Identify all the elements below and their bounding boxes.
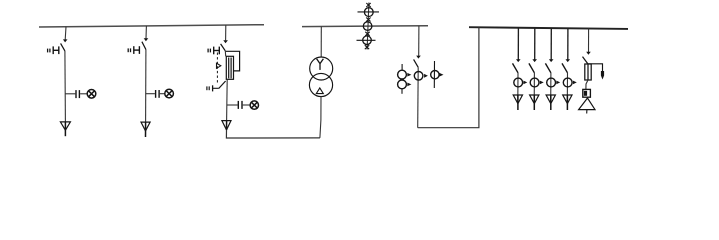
feeder 2 CT arrow	[540, 81, 544, 85]
transformer primary wire	[320, 27, 322, 58]
transformer secondary wire	[320, 97, 321, 138]
bay 3 outgoing cable arrow	[222, 121, 231, 130]
feeder 1 wire	[517, 73, 519, 104]
transformer T1 secondary winding	[309, 73, 332, 96]
CT C right circle	[431, 71, 439, 79]
bay 3 earthing switch blade	[219, 81, 226, 89]
CT C through wire	[433, 61, 435, 88]
fuse striker pin	[601, 71, 604, 80]
feeder 4 wire	[566, 73, 568, 104]
bay 2 feeder wire	[145, 50, 147, 123]
VT bay switch blade	[583, 57, 588, 64]
CT D bottom stub	[401, 89, 403, 94]
bay 1 feeder wire	[64, 51, 67, 122]
bay 2 capacitor divider bars	[156, 90, 160, 98]
feeder 4 outgoing cable arrow	[563, 95, 572, 110]
VT bay plug-in contact arrow	[586, 52, 591, 55]
bay 3 wire blade to fuse	[224, 51, 226, 57]
VT stack upper transformer circle	[364, 8, 373, 17]
metering bay main wire	[417, 67, 420, 127]
bay 1 operator bars	[48, 49, 50, 53]
bay 2 operator H glyph	[134, 46, 140, 54]
feeder 2 wire	[533, 73, 535, 104]
CT D lower-left circle	[398, 80, 407, 89]
VT bay drop wire from busbar 3	[588, 29, 590, 53]
CT A arrow	[407, 73, 411, 77]
feeder 3 drop wire from busbar 3	[550, 28, 552, 60]
feeder 1 plug-in contact arrow	[516, 59, 521, 62]
busbar 3	[469, 27, 628, 29]
bay 3 operator bars	[208, 49, 210, 53]
feeder 3 plug-in contact arrow	[549, 59, 554, 62]
VT bay wire below fuse	[586, 80, 588, 89]
bay 2 plug-in contact arrow	[144, 38, 149, 41]
transformer T1 primary winding	[310, 57, 333, 80]
bay 1 plug-in contact arrow	[63, 39, 68, 42]
CT A upper-left circle	[398, 70, 407, 79]
metering bay drop wire from busbar 2	[418, 26, 420, 56]
bay 2 drop wire from busbar 1	[145, 26, 147, 39]
bay 1 indicator lead wire	[80, 93, 87, 95]
feeder 2 switch blade	[529, 63, 535, 72]
fuse striker branch wire	[588, 64, 603, 71]
arrester earth triangle	[579, 98, 595, 110]
bay 3 indicator lamp	[250, 101, 258, 109]
bay 3 earthing switch operator bars	[207, 86, 209, 90]
bay 2 switch blade	[142, 42, 146, 50]
feeder 4 drop wire from busbar 3	[567, 28, 569, 59]
bay 2 operator bars	[128, 48, 130, 52]
bay 1 indicator lamp	[87, 90, 96, 99]
feeder 3 wire	[550, 73, 552, 104]
transformer Y label	[317, 59, 324, 70]
feeder 1 switch blade	[513, 63, 519, 72]
VT stack bottom cross	[365, 45, 369, 49]
main CT arrow	[424, 74, 428, 78]
bay 3 plug-in contact arrow	[223, 40, 228, 43]
feeder 1 current transformer	[514, 78, 523, 87]
feeder 2 current transformer	[530, 78, 539, 87]
cable run bay 3 to transformer	[226, 130, 320, 138]
tie cable run to busbar 3	[418, 27, 479, 127]
bay 1 drop wire from busbar 1	[64, 27, 67, 40]
bay 3 drop wire from busbar 1	[225, 25, 227, 40]
VT stack lower tap bar	[357, 39, 376, 41]
bay 3 feeder wire below fuse	[226, 79, 229, 120]
VT stack cross between middle and lower circles	[365, 32, 369, 36]
feeder 3 CT arrow	[556, 81, 560, 85]
bay 1 voltage indicator branch wire	[65, 93, 75, 95]
VT stack middle transformer circle on busbar	[363, 22, 372, 31]
feeder 2 drop wire from busbar 3	[534, 28, 536, 60]
feeder 4 plug-in contact arrow	[566, 59, 571, 62]
bay 3 fuse body	[226, 56, 233, 79]
metering bay plug-in contact arrow	[416, 56, 421, 59]
bay 1 outgoing cable arrow	[60, 122, 70, 136]
bay 2 voltage indicator branch wire	[146, 93, 155, 95]
bay 3 voltage indicator branch wire	[227, 104, 238, 106]
bay 1 switch blade	[61, 43, 65, 51]
busbar 1	[39, 25, 264, 27]
bay 3 fuse striker triangle	[217, 63, 221, 68]
feeder 2 plug-in contact arrow	[532, 59, 537, 62]
VT stack upper tap bar	[358, 11, 380, 13]
transformer delta label	[316, 88, 323, 94]
VT bay fuse body	[585, 64, 591, 80]
bay 2 indicator lamp	[165, 89, 174, 98]
metering bay switch blade	[414, 59, 419, 67]
CT A top stub	[401, 64, 403, 70]
bay 2 outgoing cable arrow	[141, 122, 150, 137]
feeder 4 current transformer	[563, 78, 572, 87]
VT stack top cross	[366, 3, 370, 7]
busbar 2	[302, 25, 428, 28]
bay 1 operator H glyph	[53, 46, 59, 54]
bay 3 indicator lead wire	[243, 104, 251, 106]
CT C arrow	[439, 73, 443, 77]
CT D arrow	[407, 83, 411, 87]
bay 2 indicator lead wire	[160, 93, 165, 95]
VT stack cross between upper and middle circles	[366, 18, 370, 22]
VT stack lower transformer circle	[363, 36, 372, 45]
arrester earth stub	[586, 110, 588, 114]
feeder 1 drop wire from busbar 3	[517, 28, 519, 60]
busbar VT stack riser wire	[367, 3, 369, 50]
bay 3 switch blade	[221, 44, 226, 51]
feeder 3 outgoing cable arrow	[546, 95, 555, 110]
feeder 2 outgoing cable arrow	[530, 95, 539, 110]
bay 3 operator H glyph	[214, 47, 220, 55]
bay 3 fuse holder loop	[226, 51, 240, 71]
bay 1 capacitor divider bars	[76, 90, 79, 98]
feeder 1 CT arrow	[523, 81, 527, 85]
feeder 3 switch blade	[545, 63, 551, 72]
bay 3 earthing switch contact tick	[212, 85, 214, 91]
current transformer on main wire	[414, 72, 423, 81]
bay 3 capacitor divider bars	[238, 101, 242, 109]
surge arrester box	[583, 89, 591, 97]
bay 3 earthing switch wire	[213, 87, 219, 89]
feeder 4 switch blade	[562, 63, 568, 72]
feeder 4 CT arrow	[573, 81, 577, 85]
feeder 1 outgoing cable arrow	[513, 95, 522, 110]
bay 3 striker linkage (dashed)	[216, 53, 218, 85]
feeder 3 current transformer	[547, 78, 556, 87]
